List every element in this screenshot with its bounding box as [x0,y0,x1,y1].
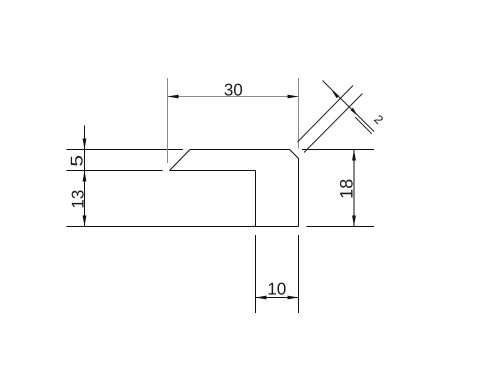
part step top edge [170,170,256,172]
arrow down at 5 top [83,139,87,150]
dimension text 10 [269,283,286,295]
part chamfer edge [290,150,299,159]
dimension text 13 [72,190,84,207]
extension line 18 bottom [307,226,375,228]
arrow down at 13 bottom [83,216,87,227]
dimension line 18 [353,150,355,227]
chamfer extension line A from bottom corner [304,94,363,153]
extension line 18 top [302,149,374,151]
extension line 10 left [255,235,257,313]
dimension line 30 [168,96,299,98]
part right edge [298,158,300,227]
arrow left at 10 left [256,296,267,300]
extension line 30 left [167,78,169,163]
part ramp edge [170,150,191,171]
dimension text 5 [71,156,83,166]
part top surface [190,149,290,151]
arrow down at 18 bottom [352,216,356,227]
chamfer dimension line [323,81,375,132]
dimension line left (5 and 13) [84,126,86,227]
chamfer extension line B from top corner [298,86,354,143]
extension line mid-left for 5/13 [67,170,163,172]
dimension line 10 [256,297,299,299]
dimension text 30 [225,84,243,96]
chamfer dim arrow pointing SE [351,108,358,116]
part inner vertical edge [255,171,257,227]
arrow up at 5/13 boundary [83,171,87,182]
extension line 30 right [298,78,300,149]
arrow right at 30 right [288,95,299,99]
dimension text 2 [374,114,384,124]
arrow up at 18 top [352,150,356,161]
arrow left at 30 left [168,95,179,99]
extension line top-left for 5 [67,149,184,151]
dimension text 18 [340,180,353,198]
extension line 10 right [298,235,300,313]
chamfer dim second parallel segment under text [355,117,372,134]
chamfer dim arrow pointing NW [332,90,339,98]
part bottom edge with 13 extension line [67,226,299,228]
arrow right at 10 right [288,296,299,300]
